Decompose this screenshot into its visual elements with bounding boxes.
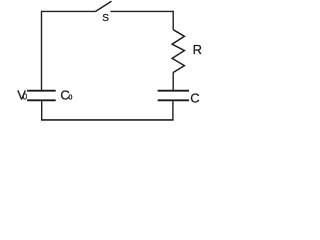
svg-text:0: 0 xyxy=(69,95,73,102)
capacitor C bottom plate xyxy=(158,99,189,101)
wire left vertical upper (top corner to capacitor C0) xyxy=(41,11,43,90)
resistor R zigzag xyxy=(172,30,184,73)
wire top-right horizontal segment xyxy=(110,10,173,12)
capacitor C0 bottom plate xyxy=(27,99,56,101)
wire right vertical (top corner to resistor) xyxy=(172,11,174,30)
svg-text:0: 0 xyxy=(23,93,28,102)
capacitor C top plate xyxy=(158,90,189,92)
svg-text:C: C xyxy=(190,91,199,106)
wire left vertical lower (bottom corner to capacitor C0) xyxy=(41,101,43,120)
wire resistor to capacitor C xyxy=(172,73,174,90)
svg-text:S: S xyxy=(102,13,109,24)
svg-text:R: R xyxy=(193,42,202,57)
wire top-left horizontal segment xyxy=(42,10,96,12)
wire bottom horizontal xyxy=(42,119,174,121)
capacitor C0 top plate xyxy=(27,90,56,92)
RC circuit schematic: C0 discharging through switch S into R and C xyxy=(0,0,231,132)
wire capacitor C to bottom wire xyxy=(172,101,174,120)
switch S blade (open) xyxy=(95,1,111,11)
